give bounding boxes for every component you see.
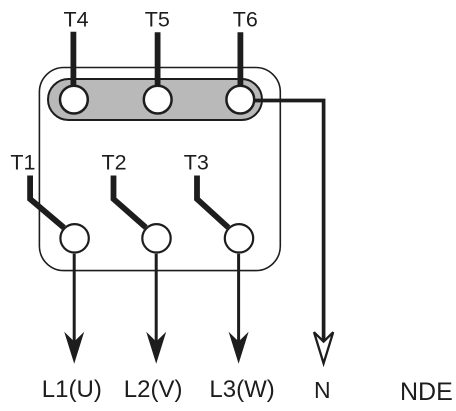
terminal box outline [39,68,280,271]
lead T2 [114,176,146,228]
arrowhead L2 [146,332,166,364]
terminal T4 circle [60,86,88,114]
lead T5 [155,32,161,86]
arrowhead L1 [64,332,84,364]
terminal T2 circle [142,224,170,252]
wire L3 arrow shaft [237,254,240,352]
terminal T6 circle [226,86,254,114]
svg-text:T5: T5 [145,8,170,32]
svg-text:NDE: NDE [400,378,453,406]
terminal T3 circle [225,224,253,252]
svg-text:N: N [314,377,331,403]
arrowhead L3 [229,332,249,364]
lead T6 [237,32,243,86]
svg-text:T6: T6 [233,8,258,32]
svg-text:T4: T4 [64,8,89,32]
svg-text:L3(W): L3(W) [209,376,274,403]
svg-text:L2(V): L2(V) [124,376,183,403]
terminal T1 circle [60,224,88,252]
lead T4 [71,32,77,86]
terminal T5 circle [144,86,172,114]
wire T6 to N [253,101,324,345]
wire L1 arrow shaft [73,254,76,352]
terminal link bar (gray busbar) [48,79,262,120]
lead T1 [30,176,64,228]
lead T3 [197,176,228,228]
svg-text:T2: T2 [102,151,127,175]
arrowhead N (open) [314,332,333,363]
wire L2 arrow shaft [155,254,158,352]
svg-text:T1: T1 [10,151,35,175]
svg-text:T3: T3 [184,151,209,175]
svg-text:L1(U): L1(U) [42,376,102,403]
